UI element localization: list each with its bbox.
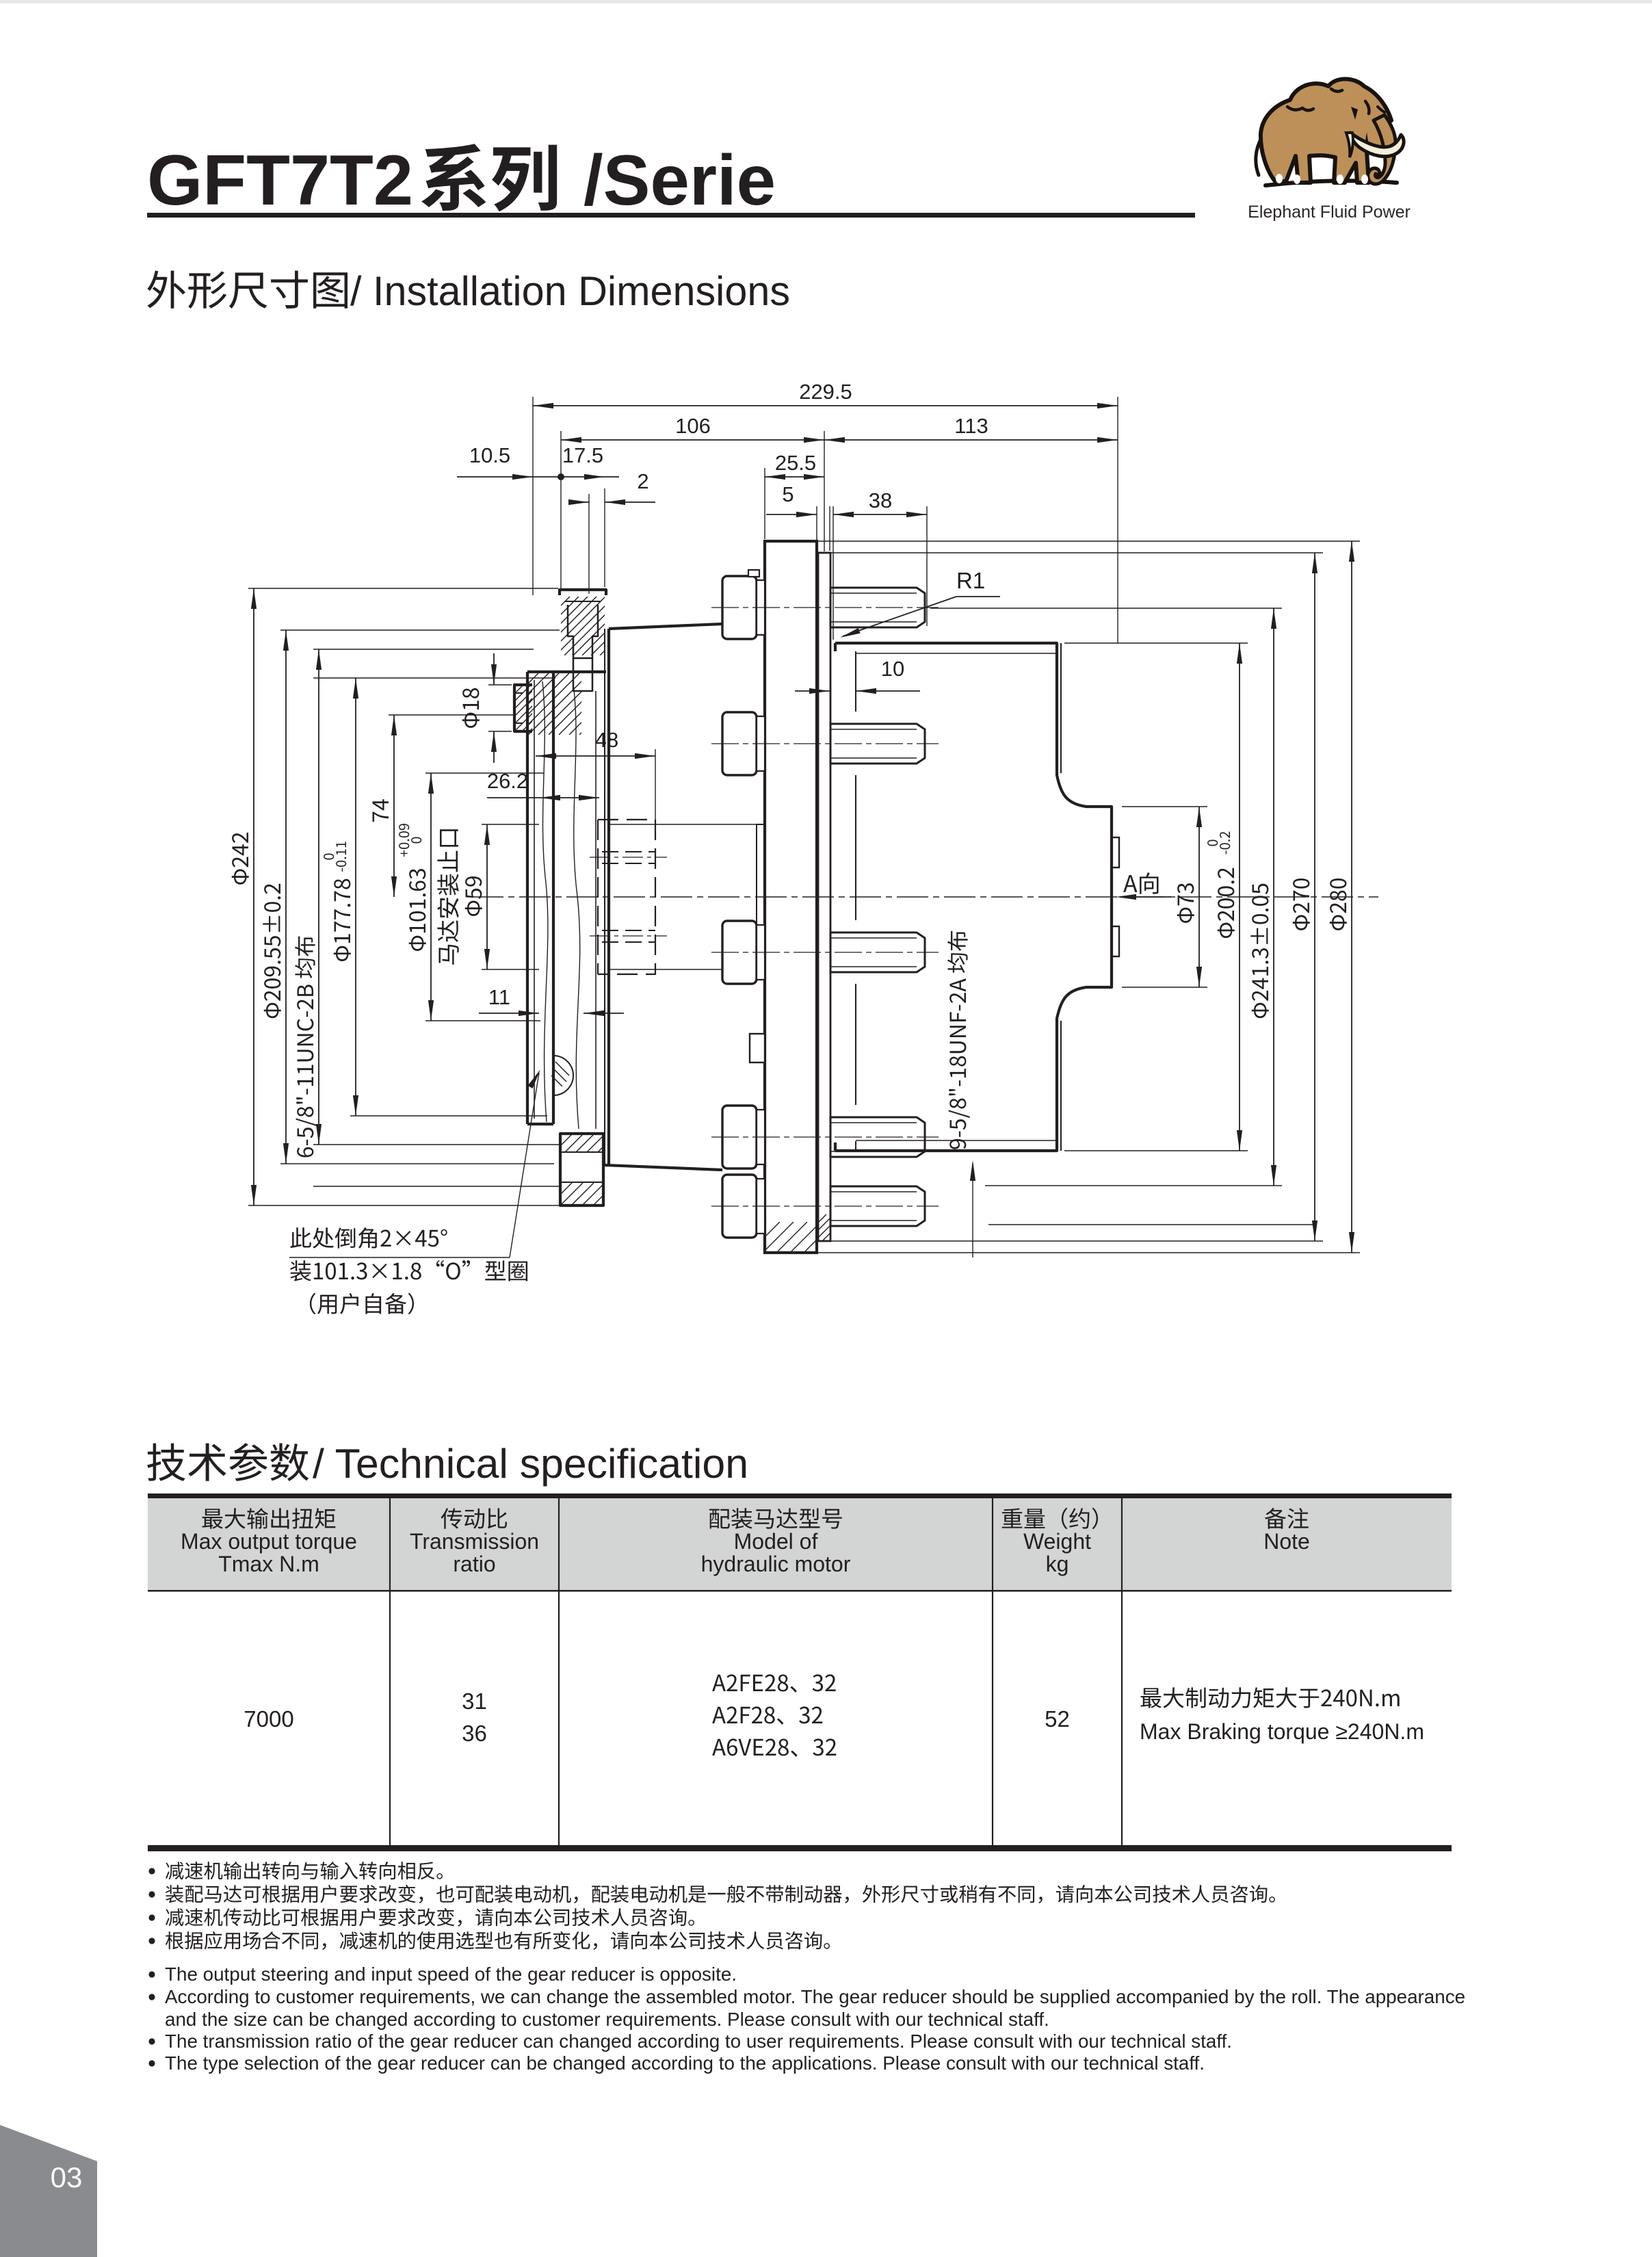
bleed valve on wheel plate (750, 1034, 765, 1062)
svg-text:52: 52 (1045, 1706, 1070, 1732)
svg-text:GFT7T2: GFT7T2 (147, 141, 413, 220)
svg-text:5: 5 (782, 482, 794, 506)
svg-text:106: 106 (675, 414, 711, 438)
ring gear housing outline (835, 643, 1112, 1151)
svg-text:48: 48 (595, 728, 618, 752)
label A view (1123, 872, 1158, 893)
svg-text:Model of: Model of (734, 1529, 818, 1554)
svg-text:The type selection of the gear: The type selection of the gear reducer c… (165, 2052, 1205, 2074)
svg-text:Note: Note (1263, 1529, 1310, 1554)
section heading: installation dimensions (147, 271, 348, 309)
svg-text:/Serie: /Serie (584, 141, 776, 220)
svg-text:229.5: 229.5 (799, 380, 852, 404)
dim dia73 (1198, 807, 1200, 987)
brake disc plate dia270 (5mm) (818, 553, 830, 1241)
section heading: technical specification (147, 1443, 309, 1481)
svg-text:/ Technical specification: / Technical specification (313, 1441, 748, 1487)
dim 26.2 (540, 797, 599, 798)
table header text (202, 1508, 336, 1528)
wheel stud / bolt row 3 (722, 921, 757, 984)
dim dia101.63 motor spigot (430, 773, 432, 1021)
wheel mounting flange plate dia280 (765, 541, 817, 1253)
wheel stud / bolt row 2 (722, 712, 757, 775)
dim 48 (536, 755, 655, 757)
svg-text:26.2: 26.2 (487, 769, 528, 793)
wheel stud / bolt row 4 (722, 1106, 757, 1169)
svg-text:7000: 7000 (244, 1706, 293, 1732)
svg-text:Max Braking torque ≥240N.m: Max Braking torque ≥240N.m (1140, 1719, 1424, 1744)
svg-text:36: 36 (462, 1721, 487, 1746)
housing inner wall segments (855, 651, 856, 712)
svg-text:113: 113 (954, 414, 988, 438)
small tab on row1 bolt head (748, 570, 759, 577)
svg-text:hydraulic motor: hydraulic motor (701, 1552, 851, 1576)
svg-text:According to customer requirem: According to customer requirements, we c… (165, 1986, 1465, 2007)
O-ring groove at flange bottom (chamfer detail) (553, 1056, 573, 1095)
svg-text:17.5: 17.5 (562, 443, 603, 467)
wire: main horizontal centerline (472, 896, 1378, 898)
svg-text:25.5: 25.5 (775, 451, 816, 475)
svg-text:10: 10 (881, 657, 904, 681)
gearbox housing front wall (604, 629, 605, 1165)
dim dia177.78 (355, 678, 356, 1116)
table bottom border (148, 1845, 1452, 1851)
housing bottom surface (605, 1165, 722, 1170)
svg-text:Weight: Weight (1023, 1529, 1091, 1554)
dim 10 ring flange thickness (795, 690, 830, 692)
pilot lip on wheel plate (757, 824, 765, 969)
dim 2 (572, 501, 589, 503)
dim dia280 (1351, 541, 1352, 1253)
dim 5 (766, 514, 817, 515)
svg-text:Max output torque: Max output torque (181, 1529, 357, 1554)
output bore lines (609, 824, 757, 825)
svg-text:31: 31 (462, 1688, 487, 1714)
dim 11 (479, 1013, 539, 1014)
dim 10.5 (457, 476, 619, 478)
dim dia270 (1314, 553, 1315, 1241)
wavy break lines (542, 681, 548, 1122)
svg-text:Transmission: Transmission (410, 1529, 539, 1554)
svg-text:38: 38 (869, 488, 892, 512)
bell housing bottom bolt ring (hatched cross-section) (560, 1134, 603, 1205)
housing rim inner lines (856, 653, 1056, 654)
dim dia209.55 bolt circle (285, 630, 287, 1164)
svg-text:and the size can be changed ac: and the size can be changed according to… (165, 2009, 1049, 2030)
svg-text:ratio: ratio (453, 1552, 495, 1576)
dim dia241.3 bolt circle (1273, 608, 1274, 1186)
dim dia18 (493, 653, 495, 685)
chamfer leader note (289, 1257, 510, 1258)
svg-text:Elephant Fluid Power: Elephant Fluid Power (1248, 203, 1411, 222)
svg-text:The transmission ratio of the: The transmission ratio of the gear reduc… (165, 2031, 1232, 2052)
svg-text:11: 11 (488, 985, 510, 1009)
bleed plug (top, cross-section) (560, 590, 606, 595)
svg-text:Tmax N.m: Tmax N.m (218, 1552, 319, 1576)
wheel stud / bolt row 5 (722, 1175, 757, 1238)
dim 106 (561, 439, 824, 441)
svg-text:/ Installation Dimensions: / Installation Dimensions (350, 268, 790, 314)
dim 17.5 (584, 474, 605, 480)
dim 38 stud length (833, 514, 927, 515)
svg-text:The output steering and input: The output steering and input speed of t… (165, 1964, 737, 1985)
hidden motor spigot (dashed) dia101.63 (598, 820, 655, 974)
label motor mounting spigot (437, 829, 459, 965)
stud bottom extension line (988, 1224, 1313, 1225)
logo: Elephant Fluid Power mammoth (1256, 79, 1404, 186)
thread callout 9-5/8-18UNF-2A (947, 931, 970, 1149)
table column rules (389, 1498, 391, 1845)
footer page tab (0, 2125, 97, 2257)
table header bottom rule (148, 1590, 1452, 1592)
svg-text:2: 2 (637, 469, 648, 493)
housing top surface (slightly sloped) (609, 624, 722, 629)
dim dia200.2 (1239, 643, 1240, 1151)
title underline (147, 213, 1195, 218)
motor port bosses on pilot face (1112, 837, 1119, 867)
svg-text:10.5: 10.5 (469, 443, 510, 467)
table top border (148, 1493, 1452, 1498)
dim 25.5 (765, 476, 824, 478)
dim 74 (393, 715, 395, 897)
svg-text:03: 03 (51, 2161, 83, 2193)
notes: chinese bullets (148, 1868, 155, 1874)
dim 113 (824, 439, 1118, 441)
wheel stud / bolt row 1 (722, 576, 757, 639)
thread callout 6-5/8-11UNC-2B (318, 649, 319, 1145)
table header background (148, 1498, 1452, 1590)
dim dia242 (253, 588, 254, 1205)
dim 229.5 overall length (533, 405, 1118, 406)
output flange plate (11mm, left tall plate) (526, 672, 529, 1124)
faint page top edge (0, 0, 1652, 3)
dim dia59 (486, 824, 488, 969)
grease fitting dia18 (left side) (514, 685, 532, 731)
svg-text:kg: kg (1046, 1552, 1069, 1576)
notes: english bullets (148, 1971, 155, 1977)
svg-text:R1: R1 (956, 568, 985, 593)
front housing inner wall (595, 691, 596, 1129)
